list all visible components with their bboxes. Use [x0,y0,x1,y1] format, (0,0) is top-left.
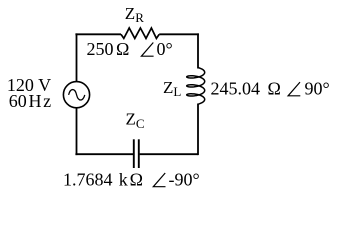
wire: top horizontal, left segment [75,33,121,35]
svg-text:Ω: Ω [268,79,281,99]
svg-text:60: 60 [9,91,27,111]
svg-text:k: k [119,170,128,190]
AC voltage source circle [63,82,89,108]
angle symbol for -90 degrees [153,173,165,187]
svg-text:0°: 0° [157,39,173,59]
svg-text:ZR: ZR [125,4,144,25]
svg-text:Hz: Hz [29,91,53,111]
wire: right rail lower [197,104,199,156]
wire: bottom horizontal, left segment [75,153,133,155]
wire: left rail upper [76,33,78,81]
capacitor Z_C left plate [133,139,135,168]
svg-text:90°: 90° [305,79,330,99]
wire: right rail upper [197,33,199,68]
angle symbol for 0 degrees [141,43,153,57]
svg-text:ZL: ZL [163,78,181,99]
wire: top horizontal, right segment [159,33,199,35]
capacitor Z_C right plate [138,139,140,168]
angle symbol for 90 degrees [288,82,300,96]
inductor Z_L coil curve [187,68,205,105]
wire: bottom horizontal, right segment [140,153,198,155]
wire: left rail lower [76,108,78,156]
svg-text:1.7684: 1.7684 [63,170,113,190]
svg-text:-90°: -90° [169,170,200,190]
svg-text:ZC: ZC [126,110,145,131]
resistor Z_R zigzag [121,28,159,38]
svg-text:250: 250 [87,39,114,59]
svg-text:Ω: Ω [116,39,129,59]
svg-text:Ω: Ω [130,170,143,190]
svg-text:245.04: 245.04 [211,79,261,99]
AC source sine waveform [69,90,85,100]
